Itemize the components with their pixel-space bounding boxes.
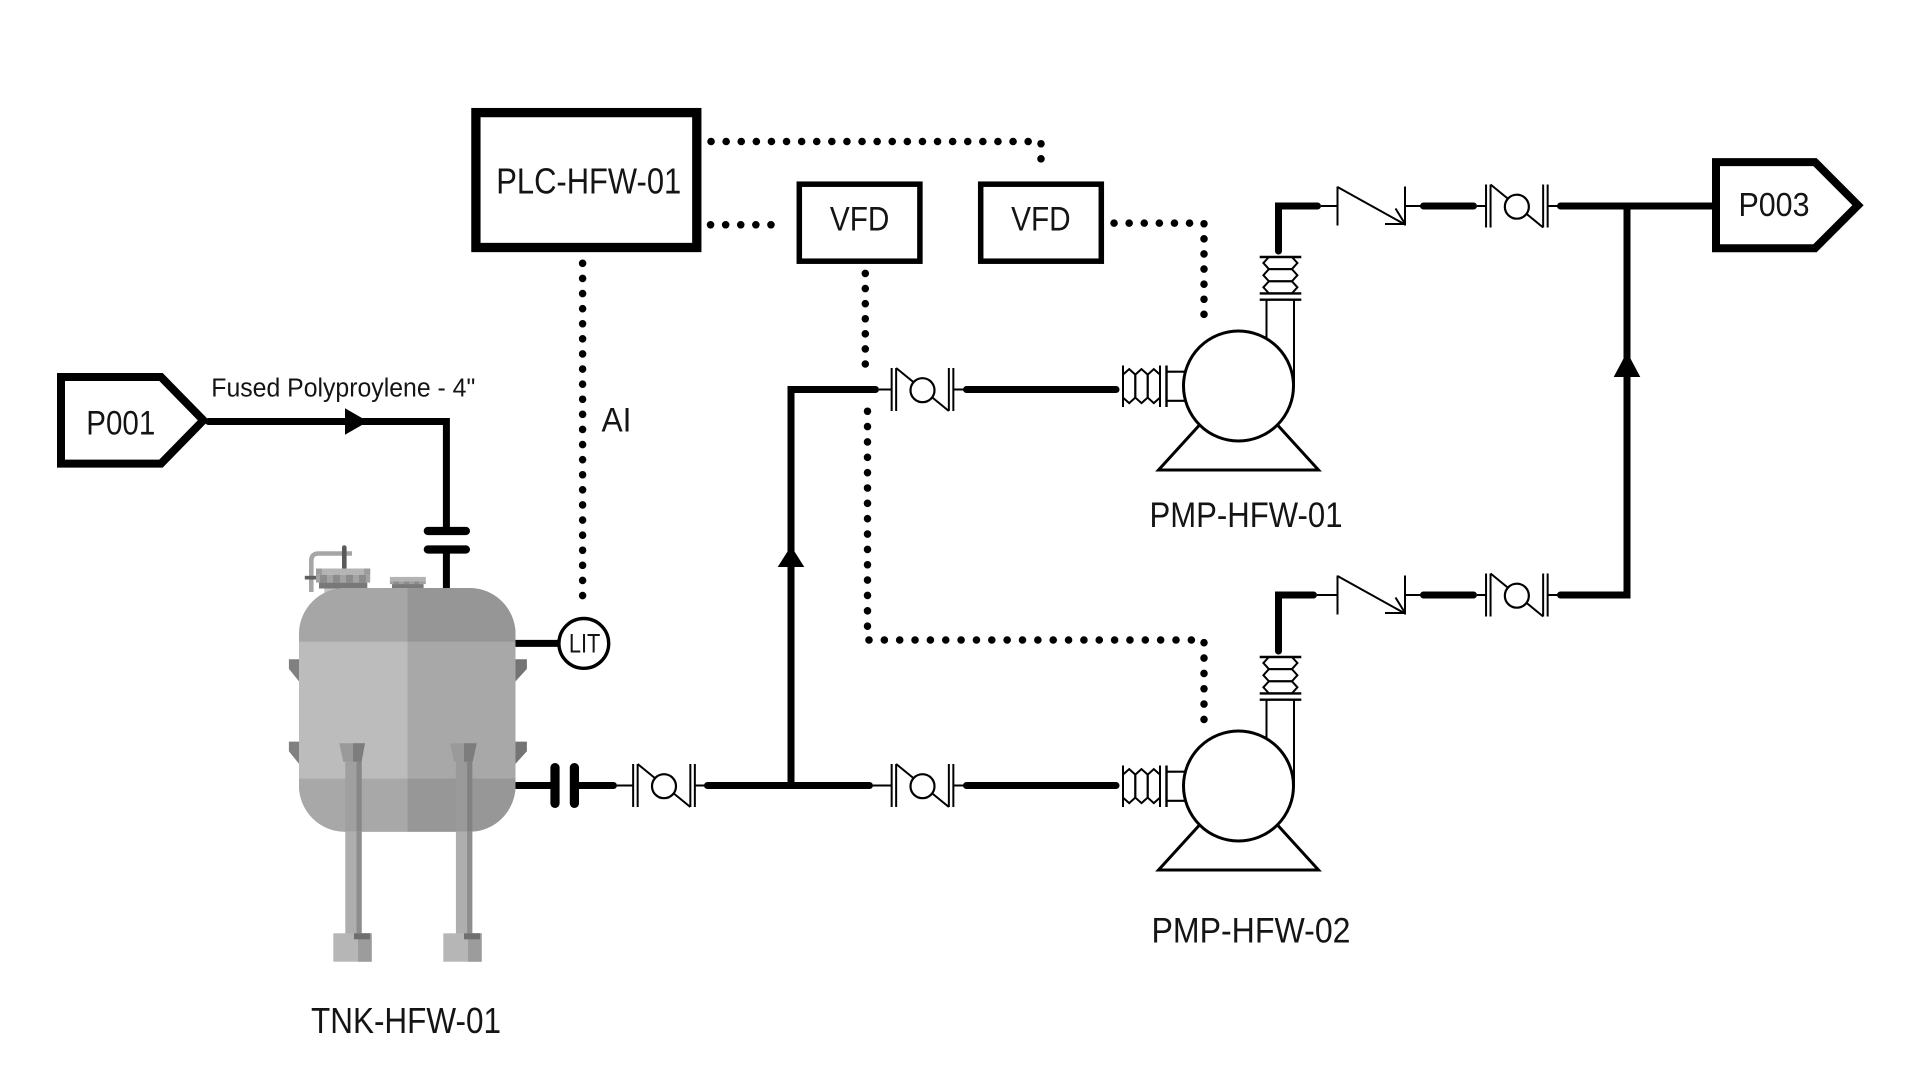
check valve CK2 (bottom discharge line) <box>1317 576 1421 615</box>
wire flange to valve V1 <box>579 782 614 789</box>
wire valve V3 to pump 1 suction <box>967 386 1117 393</box>
label PLC-HFW-01 <box>496 160 681 201</box>
valve V2 (butterfly valve, before pump 2) <box>873 764 966 807</box>
wire top line check valve to valve segment <box>1424 203 1474 210</box>
svg-text:PMP-HFW-01: PMP-HFW-01 <box>1150 496 1343 535</box>
tank top manway neck <box>324 584 345 600</box>
wire pump 1 discharge elbow <box>1279 206 1318 251</box>
pump 2 discharge bellows and nozzle <box>1260 657 1302 786</box>
tank level rod <box>342 548 347 571</box>
wire valve V1 to valve V2 (through T junction) <box>708 782 870 789</box>
label AI <box>602 402 632 440</box>
signal line VFD 1 to pump 2 (dotted, upper segment) <box>862 273 870 364</box>
svg-text:P003: P003 <box>1739 186 1810 223</box>
signal line PLC to LIT (dotted, AI) <box>579 263 587 608</box>
valve V4 (butterfly valve, top line) <box>1477 185 1558 228</box>
tank leg right <box>443 743 481 961</box>
wire right riser from bottom discharge to top line <box>1561 206 1628 595</box>
label VFD 2 <box>1011 201 1071 239</box>
signal line PLC to VFD 1 (dotted) <box>711 221 786 229</box>
pump 1 base <box>1159 425 1319 470</box>
flanged joint (outlet) bar 1 <box>550 763 559 808</box>
label TNK-HFW-01 <box>311 1000 501 1041</box>
label Fused Polyproylene - 4" <box>211 374 475 402</box>
pump 2 suction bellows <box>1123 766 1191 808</box>
tank body shell <box>299 588 517 838</box>
svg-text:PMP-HFW-02: PMP-HFW-02 <box>1152 912 1351 951</box>
flow arrow on right riser <box>1614 352 1641 377</box>
svg-text:PLC-HFW-01: PLC-HFW-01 <box>496 160 681 201</box>
tank leg left <box>333 743 371 961</box>
pump 1 casing circle <box>1184 331 1294 441</box>
wire tank inlet (lower segment into tank) <box>443 553 450 597</box>
signal line VFD 1 to pump 2 (dotted, lower segment) <box>868 411 1205 729</box>
valve V1 (butterfly valve, tank outlet) <box>617 764 708 807</box>
flanged joint (inlet) bar 2 <box>424 545 470 553</box>
tank lug left upper <box>289 659 299 681</box>
tank lug left lower <box>289 742 299 764</box>
wire valve V2 to pump 2 suction <box>967 782 1117 789</box>
sink flag P003 <box>1716 162 1858 248</box>
pump 1 suction bellows <box>1123 366 1191 408</box>
svg-text:Fused Polyproylene - 4": Fused Polyproylene - 4" <box>211 374 475 402</box>
flanged joint (inlet) bar 1 <box>424 527 470 535</box>
wire top line valve to P003 <box>1561 203 1713 210</box>
signal line VFD 2 to pump 1 (dotted) <box>1114 223 1204 327</box>
pump 1 discharge bellows and nozzle <box>1260 257 1302 386</box>
flanged joint (outlet) bar 2 <box>570 763 579 808</box>
source flag P001 <box>61 377 203 464</box>
wire P001 to tank inlet (upper segment) <box>209 422 447 528</box>
label P003 <box>1739 186 1810 223</box>
valve V3 (butterfly valve, before pump 1) <box>879 368 966 411</box>
flow arrow on P001 line <box>345 408 368 435</box>
label LIT <box>569 629 601 659</box>
svg-text:LIT: LIT <box>569 629 601 659</box>
label PMP-HFW-01 <box>1150 496 1343 535</box>
pump PMP-HFW-01 <box>1123 257 1319 470</box>
pump 2 casing circle <box>1184 731 1294 841</box>
tank right nozzle flange <box>390 577 426 588</box>
valve V5 (butterfly valve, bottom line) <box>1477 574 1558 617</box>
controller PLC-HFW-01 box <box>476 113 697 248</box>
tank manway flange <box>316 569 370 589</box>
tank vent pipe (thin L-shaped) <box>311 554 352 593</box>
tank lug right lower <box>516 742 527 764</box>
wire bottom line check valve to valve segment <box>1424 592 1474 599</box>
tank TNK-HFW-01 <box>289 548 527 962</box>
wire pump 2 discharge elbow <box>1279 595 1314 651</box>
instrument LIT (level transmitter) circle <box>559 619 609 669</box>
label VFD 1 <box>830 201 890 239</box>
label PMP-HFW-02 <box>1152 912 1351 951</box>
pump 2 base <box>1159 825 1319 870</box>
svg-text:TNK-HFW-01: TNK-HFW-01 <box>311 1000 501 1041</box>
VFD 2 box <box>981 184 1102 261</box>
VFD 1 box <box>799 184 920 261</box>
wire LIT stub <box>516 640 563 647</box>
label P001 <box>86 404 155 442</box>
svg-text:AI: AI <box>602 402 632 440</box>
svg-text:VFD: VFD <box>1011 201 1071 239</box>
signal line PLC to VFD 2 (dotted) <box>711 142 1041 173</box>
wire riser from bottom manifold up to pump 1 suction line <box>791 390 876 786</box>
svg-text:P001: P001 <box>86 404 155 442</box>
tank top right nozzle neck <box>395 584 408 596</box>
pump PMP-HFW-02 <box>1123 657 1319 870</box>
tank lug right upper <box>516 659 527 681</box>
check valve CK1 (top discharge line) <box>1321 187 1421 226</box>
tank vent handle <box>305 576 316 580</box>
wire tank outlet to flange <box>516 782 552 789</box>
flow arrow on riser <box>778 546 805 567</box>
svg-text:VFD: VFD <box>830 201 890 239</box>
